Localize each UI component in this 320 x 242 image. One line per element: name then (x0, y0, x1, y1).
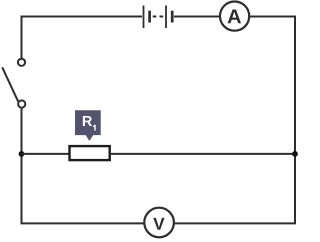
wire: switch to bottom-left corner and bottom wire to voltmeter (22, 109, 146, 224)
switch S1 (open) (2, 59, 25, 108)
node: left junction (19, 151, 25, 157)
node: right junction (292, 151, 298, 157)
wire: left top segment and top wire to battery (22, 17, 143, 59)
battery B1 (144, 6, 173, 29)
ammeter A1 (220, 2, 249, 31)
voltmeter V1 (144, 208, 174, 238)
wire: ammeter to top-right corner, right side, bottom-right to voltmeter (174, 17, 295, 224)
label R1 (75, 110, 101, 141)
resistor R1 (70, 146, 110, 160)
wire: left junction to resistor (22, 153, 70, 155)
wire: battery to ammeter (174, 16, 220, 18)
wire: resistor to right junction (110, 153, 295, 155)
